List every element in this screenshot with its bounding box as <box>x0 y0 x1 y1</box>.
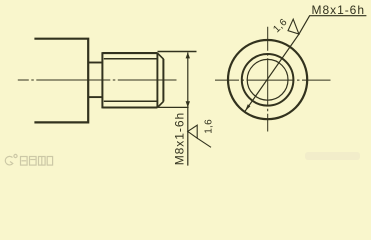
svg-text:M8x1-6h: M8x1-6h <box>312 3 365 17</box>
svg-text:M8x1-6h: M8x1-6h <box>173 113 187 166</box>
svg-text:1,6: 1,6 <box>203 119 214 134</box>
